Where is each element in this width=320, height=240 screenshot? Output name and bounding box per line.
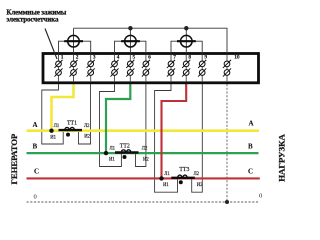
- svg-text:ТТ3: ТТ3: [179, 167, 189, 173]
- svg-text:3: 3: [93, 55, 96, 61]
- svg-text:2: 2: [76, 55, 79, 61]
- svg-text:0: 0: [34, 193, 37, 200]
- svg-text:ТТ2: ТТ2: [120, 143, 130, 149]
- svg-text:ТТ1: ТТ1: [67, 120, 77, 126]
- svg-text:Л2: Л2: [194, 172, 200, 177]
- svg-text:7: 7: [173, 55, 176, 61]
- svg-text:8: 8: [188, 55, 191, 61]
- svg-text:5: 5: [133, 55, 136, 61]
- svg-text:А: А: [249, 120, 254, 128]
- svg-text:10: 10: [234, 55, 240, 61]
- svg-text:Л1: Л1: [110, 147, 116, 152]
- svg-text:И1: И1: [50, 135, 56, 140]
- svg-text:С: С: [34, 168, 39, 176]
- svg-text:4: 4: [117, 55, 120, 61]
- svg-text:И1: И1: [109, 158, 115, 163]
- svg-text:И2: И2: [143, 158, 149, 163]
- svg-text:ГЕНЕРАТОР: ГЕНЕРАТОР: [9, 134, 19, 185]
- svg-text:В: В: [248, 143, 253, 151]
- svg-text:1: 1: [61, 55, 64, 61]
- svg-text:Л1: Л1: [164, 172, 170, 177]
- svg-text:Л2: Л2: [142, 147, 148, 152]
- svg-text:А: А: [33, 121, 38, 129]
- svg-text:6: 6: [148, 55, 151, 61]
- svg-text:Л2: Л2: [84, 124, 90, 129]
- svg-text:Л1: Л1: [54, 124, 60, 129]
- svg-text:В: В: [33, 143, 38, 151]
- svg-text:И2: И2: [84, 135, 90, 140]
- svg-text:НАГРУЗКА: НАГРУЗКА: [276, 133, 286, 181]
- svg-text:электросчетчика: электросчетчика: [6, 15, 59, 23]
- svg-text:С: С: [248, 168, 253, 176]
- svg-text:И2: И2: [197, 183, 203, 188]
- svg-text:9: 9: [204, 55, 207, 61]
- svg-text:И1: И1: [163, 183, 169, 188]
- svg-text:0: 0: [259, 193, 262, 200]
